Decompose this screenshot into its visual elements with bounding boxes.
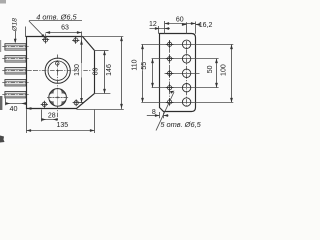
big circle r4 [182, 84, 190, 92]
dimension 146 line [121, 37, 123, 109]
small hole r2 [166, 55, 174, 63]
svg-text:63: 63 [61, 25, 69, 32]
row line 3 [165, 73, 200, 75]
svg-text:89: 89 [93, 67, 100, 75]
big port circle inner ring [48, 61, 67, 80]
left view: valve body outline [27, 37, 95, 109]
pipe stub 2 centerline [2, 58, 28, 60]
big port circle outer [45, 58, 70, 83]
big circle r5 [182, 98, 190, 106]
leader for 5 otv [156, 92, 174, 131]
clover outline [49, 89, 67, 107]
pipe stub 5 [5, 92, 26, 98]
dimension 100 [231, 44, 233, 102]
plate outline [160, 34, 196, 112]
big circle horizontal centerline [34, 70, 92, 72]
big circle r3 [182, 69, 190, 77]
dimension 40 [5, 98, 7, 105]
dimension 63 [46, 33, 82, 38]
pipe stub 2 [5, 56, 26, 62]
svg-text:60: 60 [176, 17, 184, 24]
small hole r5 [166, 98, 174, 106]
dimension 28 [41, 110, 43, 122]
svg-text:100: 100 [221, 64, 228, 76]
small hole r3 [166, 70, 174, 78]
dimension 12 [158, 26, 160, 34]
vertical centerline through circles [57, 55, 59, 121]
row line 5 [141, 102, 233, 104]
svg-text:28: 28 [48, 113, 56, 120]
svg-text:146: 146 [106, 64, 113, 76]
svg-text:Ø18: Ø18 [12, 18, 19, 32]
leader for 4 otv [29, 21, 45, 37]
dimension 55 [152, 59, 154, 88]
big circle column centerline [186, 41, 188, 106]
pipe stub 4 [5, 80, 26, 86]
svg-text:5 отв. Ø6,5: 5 отв. Ø6,5 [160, 120, 201, 129]
pipe stub 3 [5, 68, 26, 74]
mounting hole top-left [42, 36, 49, 43]
pipe stub 1 [5, 44, 26, 50]
svg-text:16,2: 16,2 [199, 22, 213, 29]
mounting hole bottom-right [73, 99, 84, 106]
row line 1 [141, 44, 233, 46]
svg-text:135: 135 [56, 122, 68, 129]
svg-text:12: 12 [149, 21, 157, 28]
big circle r1 [182, 40, 190, 48]
pipe stub 3 centerline [2, 70, 34, 72]
mounting hole top-right [72, 37, 79, 44]
pipe stub 1 centerline [2, 46, 28, 48]
clover horizontal centerline [47, 97, 69, 99]
big circle r2 [182, 55, 190, 63]
dimension 60 [164, 21, 166, 34]
svg-text:130: 130 [74, 64, 81, 76]
arrow on bottom edge [27, 107, 32, 110]
extension above top-left corner [25, 27, 27, 38]
scan streak left upper [0, 40, 1, 52]
svg-text:55: 55 [141, 62, 148, 70]
row line 2 [152, 58, 219, 60]
dimension 8 [159, 112, 161, 118]
small circle at top of ring [56, 62, 60, 66]
clover white lobes [49, 89, 67, 107]
svg-text:40: 40 [10, 104, 18, 113]
dimension 89 extensions [94, 50, 109, 52]
scan speck left bottom [0, 136, 5, 143]
center dot of big circle [57, 70, 59, 72]
svg-text:50: 50 [207, 65, 214, 73]
small hole r1 [166, 41, 174, 49]
pipe stub 5 centerline [2, 94, 28, 96]
scan speck top left [0, 0, 6, 4]
clover cross lines [49, 97, 66, 99]
mounting hole bottom-left [41, 101, 48, 108]
dimension 89 line [104, 51, 106, 94]
dimension 135 [26, 109, 28, 133]
dimension 130 line [81, 32, 83, 103]
dimension 16,2 [186, 22, 188, 34]
scan speck left middle [0, 96, 2, 110]
row line 4 [152, 87, 219, 89]
svg-text:8: 8 [152, 109, 156, 116]
svg-text:110: 110 [132, 59, 139, 70]
dimension 110 [142, 44, 144, 102]
pipe stub 4 centerline [2, 82, 28, 84]
clover knob circle [49, 89, 67, 107]
bottom edge extension line [77, 109, 124, 111]
dimension 50 [216, 59, 218, 88]
top edge extension line [83, 36, 124, 38]
label 4 otv shelf [29, 20, 82, 22]
small hole column centerline [169, 40, 171, 107]
leader for D18 [15, 31, 17, 42]
small hole r4 [166, 84, 174, 92]
